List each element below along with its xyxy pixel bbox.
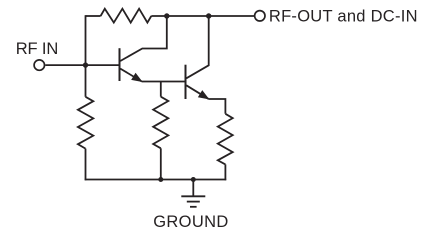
transistor Q2 collector	[186, 16, 208, 78]
resistor R1 (top feedback resistor)	[101, 9, 152, 23]
resistor R2 (left bias resistor)	[78, 97, 93, 149]
node: RF input / left rail junction	[83, 62, 88, 67]
svg-text:GROUND: GROUND	[153, 213, 229, 231]
transistor Q1 base bar	[119, 48, 121, 81]
terminal RF-OUT	[255, 11, 265, 21]
wire left resistor to bottom rail	[85, 149, 87, 181]
terminal RF IN	[34, 60, 44, 70]
wire left vertical rail	[85, 15, 87, 97]
transistor Q1 emitter	[120, 69, 141, 82]
wire middle resistor to bottom rail	[160, 148, 162, 180]
transistor Q2 emitter	[186, 85, 208, 99]
wire Q2 emitter to right resistor	[208, 99, 225, 114]
wire Q1 emitter to Q2 base	[142, 81, 186, 83]
ground symbol bars	[181, 196, 205, 207]
wire bottom rail	[85, 179, 227, 181]
transistor Q2 emitter arrowhead	[199, 91, 209, 99]
svg-text:RF IN: RF IN	[16, 40, 58, 58]
transistor Q2 base bar	[185, 65, 187, 99]
node: ground / bottom rail junction	[191, 177, 196, 182]
wire middle resistor drop	[160, 82, 162, 97]
resistor R4 (right emitter resistor)	[218, 114, 233, 165]
transistor Q1 collector	[120, 16, 167, 61]
node: middle resistor / bottom rail junction	[158, 177, 163, 182]
wire right resistor to bottom rail	[224, 164, 226, 180]
ground stem	[192, 180, 194, 197]
transistor Q1 emitter arrowhead	[132, 73, 142, 81]
resistor R3 (middle bias resistor)	[153, 97, 168, 149]
node: Q2 collector / top rail junction	[206, 13, 211, 18]
svg-text:RF-OUT and DC-IN: RF-OUT and DC-IN	[269, 8, 418, 26]
wire RF input lead	[45, 64, 119, 66]
wire top to output terminal	[151, 15, 254, 17]
wire top-left segment	[86, 15, 101, 17]
node: Q1 collector / top rail junction	[164, 13, 169, 18]
